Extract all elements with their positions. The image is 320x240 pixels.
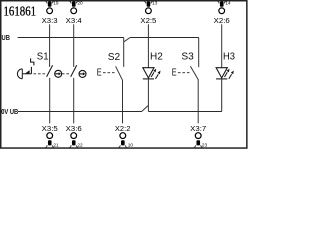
svg-text:S2: S2 — [108, 52, 121, 63]
contact S1.2 position indicator circle with arrow — [79, 70, 86, 77]
svg-text:X3:6: X3:6 — [66, 124, 82, 133]
svg-text:X2:6: X2:6 — [214, 16, 230, 25]
svg-text:S3: S3 — [181, 52, 194, 63]
terminal X3:3 pin 19 (top) — [45, 1, 54, 14]
svg-text:X2:2: X2:2 — [115, 124, 130, 133]
svg-text:X2:5: X2:5 — [140, 16, 156, 25]
svg-text:E: E — [97, 68, 102, 79]
svg-text:20: 20 — [77, 1, 83, 6]
wire LED H2 to 0V bus — [147, 79, 149, 111]
svg-text:H3: H3 — [223, 52, 235, 63]
svg-text:10: 10 — [128, 143, 134, 148]
contact S1.1 blade — [47, 65, 53, 77]
wire 0V bus right segment — [148, 111, 221, 113]
mechanical linkage dashed S1 — [34, 73, 47, 75]
svg-text:X3:5: X3:5 — [42, 124, 58, 133]
wire contact S1.1 to X3:5 — [49, 78, 51, 124]
svg-text:22: 22 — [77, 143, 83, 148]
contact S1.1 position indicator circle with arrow — [55, 70, 62, 77]
svg-text:X3:7: X3:7 — [190, 124, 206, 133]
svg-text:19: 19 — [53, 1, 59, 6]
wire X3:4 down to contact S1.2 — [73, 24, 75, 67]
svg-text:0V UB: 0V UB — [1, 109, 18, 116]
LED H2 triangle — [143, 68, 154, 78]
svg-text:X3:4: X3:4 — [66, 16, 82, 25]
svg-text:21: 21 — [53, 143, 59, 148]
terminal X3:4 pin 20 (top) — [69, 1, 78, 14]
svg-text:H2: H2 — [150, 52, 163, 63]
svg-text:23: 23 — [202, 143, 208, 148]
wire contact S1.2 to X3:6 — [73, 78, 75, 124]
switch S1 detent hook — [31, 58, 34, 73]
LED H2 emission arrows — [151, 69, 160, 79]
wire UB bus left segment — [18, 37, 124, 39]
wire 0V bus diagonal jog — [142, 106, 148, 112]
svg-text:UB: UB — [2, 35, 10, 42]
wire 0V bus left segment — [18, 111, 142, 113]
svg-text:14: 14 — [225, 1, 231, 6]
LED H3 triangle — [216, 68, 227, 78]
wire X3:3 down to contact S1.1 — [49, 24, 51, 67]
mechanical linkage dashed S2 — [103, 72, 115, 74]
mechanical linkage dashed S3 — [178, 72, 190, 74]
wire UB bus corner down to contact S3 — [198, 38, 200, 68]
LED H3 emission arrows — [225, 69, 234, 79]
contact S2 blade — [116, 66, 123, 123]
svg-text:13: 13 — [152, 1, 158, 6]
svg-text:E: E — [172, 68, 177, 79]
svg-text:S1: S1 — [37, 52, 49, 63]
LED H3 cathode bar — [216, 78, 227, 80]
switch S1 latch triangle — [25, 71, 29, 74]
wire X2:6 down to LED H3 — [221, 24, 223, 67]
switch S1 actuator knob — [17, 69, 31, 79]
svg-text:X3:3: X3:3 — [42, 16, 58, 25]
LED H2 cathode bar — [143, 78, 154, 80]
contact S3 blade — [190, 66, 198, 123]
border frame — [1, 1, 247, 148]
wire LED H3 to 0V bus — [221, 79, 223, 111]
svg-text:161861: 161861 — [4, 3, 37, 18]
terminal X2:5 pin 13 (top) — [144, 1, 153, 14]
wire UB bus to contact S2 — [123, 38, 125, 67]
wire UB bus right segment — [130, 37, 199, 39]
contact S1.2 blade — [71, 65, 77, 77]
wire UB bus diagonal jog — [124, 38, 130, 42]
wire X2:5 down to LED H2 — [147, 24, 149, 67]
terminal X2:6 pin 14 (top) — [217, 1, 226, 14]
